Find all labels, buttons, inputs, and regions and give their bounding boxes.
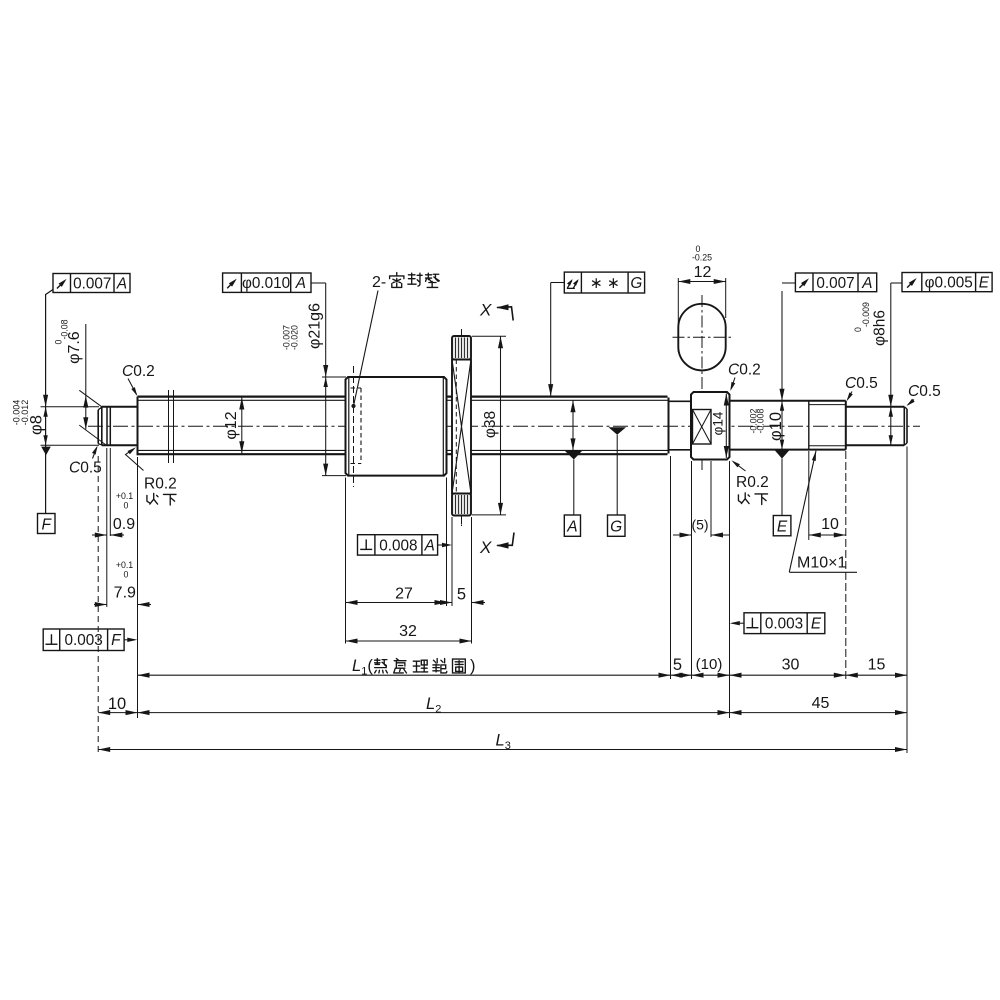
svg-text:C0.5: C0.5 bbox=[69, 460, 102, 477]
svg-text:F: F bbox=[111, 632, 122, 649]
svg-text:-0.008: -0.008 bbox=[756, 408, 766, 433]
svg-text:0: 0 bbox=[124, 570, 129, 580]
svg-text:φ14: φ14 bbox=[711, 411, 726, 435]
svg-text:0.008: 0.008 bbox=[379, 537, 417, 554]
svg-text:0.003: 0.003 bbox=[65, 632, 103, 649]
svg-text:10: 10 bbox=[108, 695, 126, 713]
svg-text:φ0.010: φ0.010 bbox=[242, 275, 290, 292]
svg-text:φ38: φ38 bbox=[482, 411, 499, 438]
svg-text:-0.012: -0.012 bbox=[20, 400, 30, 426]
svg-text:0: 0 bbox=[124, 501, 129, 511]
svg-text:0.9: 0.9 bbox=[113, 516, 135, 533]
svg-text:M10×1: M10×1 bbox=[797, 555, 846, 572]
svg-text:): ) bbox=[470, 657, 476, 675]
svg-text:φ0.005: φ0.005 bbox=[925, 275, 973, 292]
svg-text:C0.5: C0.5 bbox=[908, 383, 941, 400]
svg-text:E: E bbox=[811, 616, 822, 633]
svg-text:+0.1: +0.1 bbox=[116, 491, 133, 501]
svg-text:C0.5: C0.5 bbox=[845, 375, 878, 392]
svg-text:12: 12 bbox=[694, 264, 712, 281]
svg-text:∗ ∗: ∗ ∗ bbox=[590, 275, 620, 292]
svg-text:E: E bbox=[777, 518, 788, 535]
svg-text:φ10: φ10 bbox=[767, 412, 785, 441]
svg-text:G: G bbox=[630, 275, 642, 292]
svg-text:E: E bbox=[979, 275, 990, 292]
svg-text:X: X bbox=[479, 301, 492, 320]
svg-text:5: 5 bbox=[673, 656, 682, 674]
svg-text:R0.2: R0.2 bbox=[144, 476, 177, 493]
svg-text:7.9: 7.9 bbox=[114, 585, 136, 602]
svg-text:-0.009: -0.009 bbox=[861, 302, 871, 327]
svg-text:(5): (5) bbox=[691, 517, 708, 533]
svg-text:30: 30 bbox=[782, 657, 800, 674]
svg-text:-0.08: -0.08 bbox=[60, 319, 70, 339]
svg-text:A: A bbox=[116, 275, 127, 292]
svg-text:φ12: φ12 bbox=[223, 411, 240, 439]
svg-text:φ21g6: φ21g6 bbox=[306, 303, 323, 349]
svg-text:0.007: 0.007 bbox=[816, 275, 854, 292]
svg-text:φ8h6: φ8h6 bbox=[872, 310, 889, 346]
svg-text:10: 10 bbox=[821, 516, 839, 533]
svg-text:(10): (10) bbox=[696, 656, 723, 673]
svg-text:-0.020: -0.020 bbox=[290, 325, 300, 350]
svg-text:45: 45 bbox=[812, 695, 830, 712]
svg-text:0.007: 0.007 bbox=[73, 275, 111, 292]
svg-text:-0.25: -0.25 bbox=[692, 253, 712, 263]
svg-text:27: 27 bbox=[395, 586, 413, 603]
svg-text:φ8: φ8 bbox=[28, 415, 46, 435]
svg-text:C0.2: C0.2 bbox=[728, 362, 761, 379]
svg-text:A: A bbox=[424, 537, 435, 554]
svg-text:5: 5 bbox=[457, 586, 466, 604]
svg-text:A: A bbox=[566, 518, 577, 535]
svg-text:2-: 2- bbox=[372, 274, 386, 291]
svg-text:R0.2: R0.2 bbox=[736, 474, 769, 491]
svg-text:F: F bbox=[41, 516, 52, 533]
svg-text:32: 32 bbox=[399, 623, 417, 640]
svg-text:A: A bbox=[861, 275, 872, 292]
svg-text:+0.1: +0.1 bbox=[116, 560, 133, 570]
svg-text:A: A bbox=[295, 275, 306, 292]
svg-text:G: G bbox=[610, 518, 622, 535]
svg-text:X: X bbox=[479, 538, 492, 557]
svg-text:15: 15 bbox=[868, 657, 886, 674]
svg-text:0.003: 0.003 bbox=[765, 616, 803, 633]
svg-text:C0.2: C0.2 bbox=[122, 363, 155, 380]
